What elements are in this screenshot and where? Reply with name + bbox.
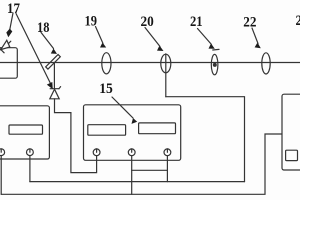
bus B (1, 134, 282, 194)
svg-text:17: 17 (7, 1, 20, 17)
label 20 leader (145, 28, 160, 47)
label 21 leader (198, 29, 212, 45)
label 19 leader (96, 27, 104, 44)
arrowhead leader 15 (132, 118, 138, 124)
middle box knob 2 (128, 149, 135, 156)
svg-text:21: 21 (190, 14, 203, 30)
label 15 leader (112, 97, 133, 118)
left box knob 2 (27, 149, 34, 156)
arrowhead leader 17b (47, 82, 53, 89)
wire left knob2 to bus A (29, 156, 31, 182)
arrowhead leader 22 (255, 43, 261, 49)
svg-text:19: 19 (85, 14, 98, 30)
lens 22 (262, 53, 270, 74)
left box knob 1 (0, 149, 5, 156)
svg-text:15: 15 (99, 81, 113, 97)
left instrument box (0, 106, 49, 159)
label 22 leader (252, 28, 258, 44)
chopper 20 (161, 54, 171, 97)
svg-text:22: 22 (243, 15, 256, 31)
right instrument box (282, 94, 308, 170)
laser box (0, 48, 17, 78)
photodiode 17b (50, 87, 61, 99)
svg-text:18: 18 (37, 20, 50, 36)
lens 19 (102, 53, 111, 74)
label 17 leader to 17a (10, 13, 13, 30)
arrowhead leader 18 (51, 49, 57, 54)
left box display slot (9, 125, 43, 134)
arrowhead leader 21 (209, 44, 215, 49)
wire middle knob3 to bus A (166, 156, 168, 182)
mirror 18 (46, 54, 61, 69)
wire left knob1 to bus B (0, 156, 2, 195)
svg-text:20: 20 (141, 14, 154, 30)
photodiode 17a (rotated, at left edge) (0, 40, 11, 54)
bus A (30, 181, 245, 183)
label 17 leader to 17b (long diagonal) (16, 14, 51, 84)
label 18 leader (41, 32, 54, 48)
middle box display slot right (139, 123, 176, 134)
arrowhead leader 17a (6, 29, 12, 38)
wire photodiode to middle box knob 1 (55, 99, 97, 173)
arrowhead leader 20 (157, 46, 164, 52)
wire middle knob2 to bus B (131, 156, 133, 195)
optical axis (0, 62, 300, 64)
right box display slot (286, 150, 298, 160)
leader lines for lenses (96, 27, 259, 47)
arrowhead leader 19 (100, 43, 106, 48)
middle box knob 3 (164, 149, 171, 156)
beam drop to photodiode 17b (53, 63, 55, 89)
pinhole 21 (211, 49, 219, 74)
middle box knob 1 (93, 149, 100, 156)
middle instrument box (84, 105, 181, 161)
middle box display slot left (88, 125, 126, 136)
wire middle knob2 to knob3 link (132, 169, 168, 171)
wire chopper 20 to bus A (166, 97, 245, 182)
svg-text:23: 23 (296, 13, 301, 29)
